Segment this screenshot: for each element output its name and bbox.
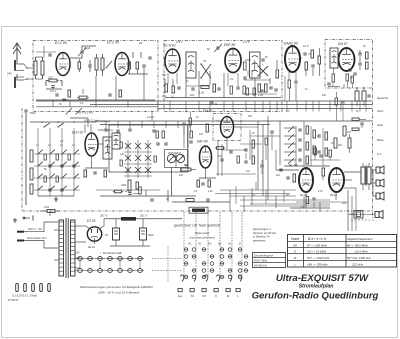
- svg-text:gezeichnet: UK-Taste gedrückt: gezeichnet: UK-Taste gedrückt: [174, 224, 221, 228]
- table column lines: [304, 235, 347, 268]
- gang drop wire: [172, 168, 181, 197]
- mid box A parts cluster: [128, 52, 152, 74]
- note Gleichspannungen 1: [80, 285, 154, 289]
- label gezeichnet UK-Taste gedrueckt: [174, 224, 221, 228]
- box A bottom link: [46, 88, 62, 89]
- IF transformer can Fi1: [186, 52, 196, 78]
- resistor chain center: [246, 140, 255, 173]
- label EM 87: [338, 42, 348, 46]
- AM band switch row 1: [34, 150, 80, 155]
- svg-text:EBF 89: EBF 89: [197, 140, 208, 144]
- note Spannungen: [253, 227, 276, 242]
- Tastensatz left feed dashes: [152, 246, 182, 282]
- svg-text:AM 460 kHz: AM 460 kHz: [253, 265, 268, 268]
- resistors under V2: [162, 84, 181, 99]
- coupling parts to EABC80: [300, 50, 315, 76]
- screen resistor: [322, 168, 325, 176]
- IF decoupling cluster: [243, 59, 277, 95]
- parts under V3 tube: [230, 86, 246, 94]
- AM section bottom bus: [38, 195, 74, 197]
- table header Taste: [291, 237, 300, 241]
- folded dipole bars: [15, 60, 24, 88]
- svg-text:(von oben gesehen): (von oben gesehen): [190, 236, 215, 240]
- mains plug pin 1: [17, 231, 28, 233]
- svg-text:Bass: Bass: [377, 138, 384, 142]
- svg-text:Ultra-EXQUISIT 57W: Ultra-EXQUISIT 57W: [276, 273, 369, 284]
- parts below detector box: [335, 92, 345, 121]
- tone parts column 2: [313, 130, 328, 156]
- label HL: [377, 152, 382, 156]
- parts above V3: [207, 44, 222, 52]
- loudspeaker LS1: [376, 166, 384, 174]
- antenna input wires top: [36, 46, 56, 58]
- svg-text:1,5k: 1,5k: [199, 91, 205, 95]
- capacitor 0,5n: [46, 81, 62, 94]
- Zwischenfrequenz box: [253, 253, 286, 268]
- interstage parts right mid: [310, 134, 351, 160]
- tube V6 ECH81 AM: [85, 133, 98, 156]
- label Solo: [377, 123, 383, 127]
- svg-text:281 V: 281 V: [99, 214, 108, 218]
- table row UK: [293, 243, 368, 247]
- svg-text:Spannungen u.: Spannungen u.: [253, 227, 271, 231]
- label ECH 81 AM: [72, 131, 83, 135]
- tube V2 ECH81: [165, 49, 180, 73]
- label 220V 50: [27, 227, 42, 231]
- svg-text:222: 222: [341, 202, 347, 205]
- X switch right of V3: [257, 65, 268, 76]
- EM80 feed parts: [182, 112, 191, 134]
- oscillator coil can: [103, 137, 112, 159]
- mains wires: [28, 211, 58, 248]
- chassis boundary left dash-dot: [21, 108, 23, 211]
- B+ trunk mid y124.5: [100, 124, 270, 126]
- Tastensatz column labels E1: [188, 242, 241, 246]
- tuning gang section 2: [176, 154, 184, 162]
- stubs under top tubes: [168, 72, 296, 86]
- svg-text:48 V 4,4 mA: 48 V 4,4 mA: [95, 120, 110, 124]
- tone switch stack: [284, 126, 296, 164]
- svg-text:E1: E1: [188, 242, 192, 246]
- svg-text:Aus: Aus: [177, 294, 183, 298]
- svg-text:Solo: Solo: [377, 123, 383, 127]
- label 150V: [84, 119, 99, 123]
- power transformer primary: [59, 220, 64, 276]
- svg-text:ECC 85: ECC 85: [55, 41, 67, 45]
- label EL 84: [289, 164, 298, 168]
- label Tanz: [377, 109, 384, 113]
- table row L: [294, 262, 363, 266]
- trimmer capacitor 30pF: [78, 46, 91, 56]
- label 67 026 05: [8, 300, 19, 302]
- trunk line y97.5: [165, 97, 281, 99]
- dipole terminals: [24, 64, 33, 80]
- tube V4 EABC80: [285, 46, 300, 72]
- tube V5 EAA91 in detector box: [339, 48, 355, 71]
- box A lower wires: [36, 68, 155, 100]
- svg-text:Netzschalter 25,4: Netzschalter 25,4: [27, 237, 47, 240]
- svg-text:E1: E1: [228, 242, 232, 246]
- dipole matching coils: [34, 57, 44, 79]
- detector coil can: [330, 48, 338, 68]
- tube V1b ECC85: [115, 53, 129, 76]
- table row lines: [288, 242, 397, 261]
- tuned line circuit: [95, 54, 104, 76]
- label ECC 85 right half: [107, 41, 144, 46]
- subtitle Stromlaufplan: [299, 284, 334, 290]
- svg-text:Sprache: Sprache: [377, 96, 389, 100]
- loudspeaker LS3: [376, 192, 384, 200]
- svg-text:200V· 10-V- und 15-V-Bereich: 200V· 10-V- und 15-V-Bereich: [97, 290, 140, 294]
- wires around V8: [168, 153, 216, 178]
- AM band switch row 2: [34, 162, 80, 167]
- svg-text:B e r e i c h: B e r e i c h: [308, 237, 326, 241]
- tube V1a ECC85: [56, 53, 70, 76]
- title Gerufon-Radio Quedlinburg: [252, 291, 379, 302]
- svg-text:Tastensatz: Tastensatz: [195, 231, 210, 235]
- table header Bereich: [308, 237, 326, 241]
- label 251 V: [139, 214, 148, 218]
- parts under EABC80: [285, 76, 298, 101]
- svg-text:87 — 100 MHz: 87 — 100 MHz: [307, 243, 328, 247]
- heater labels: [75, 253, 122, 255]
- svg-text:UK: UK: [202, 294, 206, 298]
- electrolytic 50uF 2: [140, 219, 155, 246]
- ratio detector capacitors: [358, 45, 366, 70]
- NF coupling parts left mid: [113, 187, 142, 194]
- label Netzschalter: [27, 237, 47, 240]
- wire antenna down: [17, 58, 24, 80]
- coupling cap EL84: [276, 169, 283, 177]
- wattage legend symbols: [16, 284, 51, 292]
- svg-text:4,4mA: 4,4mA: [147, 116, 154, 119]
- label 240: [6, 72, 12, 76]
- svg-text:Drucktasten-Satz: Drucktasten-Satz: [103, 252, 122, 255]
- resistor 220: [47, 76, 59, 82]
- svg-text:Tanz: Tanz: [377, 109, 384, 113]
- AM input coils: [30, 150, 33, 194]
- svg-text:52n: 52n: [190, 93, 195, 97]
- caps lower mid: [150, 199, 209, 202]
- AM matrix resistors: [44, 154, 70, 182]
- svg-text:148 — 350 kHz: 148 — 350 kHz: [307, 262, 328, 266]
- oscillator shield box solid: [109, 125, 188, 172]
- heater risers: [80, 260, 140, 268]
- coil 220k parts: [120, 180, 139, 191]
- svg-text:Taste: Taste: [291, 237, 300, 241]
- coupling parts center mid: [215, 131, 274, 176]
- svg-text:Stromlaufplan: Stromlaufplan: [299, 284, 334, 290]
- parts under V6: [84, 170, 107, 177]
- IF amplifier shield box dash-dot: [164, 41, 282, 112]
- svg-text:EABC 80: EABC 80: [284, 42, 298, 46]
- table row K: [294, 249, 368, 253]
- mains fuse: [40, 206, 60, 213]
- loudspeaker LS4: [375, 211, 383, 219]
- label 150V 5,2mA inside box: [98, 128, 113, 132]
- resistor grid box A: [78, 59, 81, 72]
- output transformer: [361, 163, 371, 190]
- label Drucktasten-Satz: [103, 252, 122, 255]
- svg-text:E1: E1: [208, 242, 212, 246]
- tube V9 EL84 output: [299, 168, 313, 192]
- label EM 80: [203, 109, 212, 113]
- trunk line y108 lower: [158, 108, 372, 110]
- output stage wires: [276, 150, 352, 208]
- AM matrix capacitors: [48, 165, 75, 191]
- tube V10 EM80 bold: [329, 168, 344, 192]
- svg-text:Strömen an NF-bei: Strömen an NF-bei: [253, 231, 276, 235]
- svg-text:2,2k: 2,2k: [207, 190, 213, 193]
- svg-text:in Stellung TA: in Stellung TA: [253, 235, 270, 239]
- switch contact g2: [57, 123, 63, 128]
- wattage legend text: [12, 294, 37, 298]
- heater chain row 1: [74, 257, 144, 261]
- svg-text:220: 220: [47, 76, 53, 80]
- coupling capacitor box A: [88, 60, 91, 72]
- cap 6n near EM80: [210, 102, 218, 106]
- long wires lower mid: [96, 190, 330, 206]
- trunk line y104.5: [90, 104, 372, 106]
- svg-text:EBF 89: EBF 89: [224, 43, 235, 47]
- tone network wires: [280, 121, 330, 166]
- svg-text:98 V 8,2 mA: 98 V 8,2 mA: [78, 111, 93, 115]
- svg-text:Abgleichfrequenzen: Abgleichfrequenzen: [346, 237, 373, 241]
- wires box B: [165, 60, 277, 98]
- svg-text:Ra 10: Ra 10: [88, 245, 95, 249]
- svg-text:517 — 1620 kHz: 517 — 1620 kHz: [307, 256, 330, 260]
- band switch row top: [30, 121, 96, 123]
- svg-text:2 k: 2 k: [79, 101, 84, 105]
- svg-text:220 V ~ 50: 220 V ~ 50: [27, 227, 42, 231]
- resistor 1M EM80: [199, 124, 209, 136]
- svg-text:E: E: [239, 242, 241, 246]
- label von oben gesehen: [190, 236, 215, 240]
- loudspeaker LS2: [376, 179, 384, 187]
- capacitor 5n: [59, 99, 66, 106]
- chassis boundary bottom dash-dot: [22, 210, 373, 212]
- svg-text:4,9 V: 4,9 V: [176, 40, 184, 44]
- mains plug pin 2: [17, 240, 44, 242]
- ground mains: [13, 218, 17, 222]
- AM coil labels: [36, 144, 75, 147]
- svg-text:ECH 81: ECH 81: [164, 44, 176, 48]
- switch wires top row: [70, 118, 88, 127]
- IF transformer can Fi2: [250, 52, 261, 78]
- svg-text:ECC 85: ECC 85: [107, 41, 119, 45]
- svg-text:0,1 0,25 0,5 1 2 Watt: 0,1 0,25 0,5 1 2 Watt: [12, 294, 37, 298]
- label EBF 89 NF: [197, 140, 208, 144]
- svg-text:E1: E1: [198, 242, 202, 246]
- trunk y106.8 box A: [36, 106, 158, 108]
- bass potentiometer: [331, 138, 342, 148]
- svg-text:Zwischenfrequenz: Zwischenfrequenz: [253, 256, 274, 258]
- label Ra 10 EZ80: [88, 245, 95, 249]
- detector load resistor: [327, 68, 340, 87]
- svg-text:4,7k: 4,7k: [318, 190, 323, 193]
- svg-text:5,0 — 19 MHz: 5,0 — 19 MHz: [307, 249, 327, 253]
- svg-text:25k: 25k: [247, 115, 253, 118]
- alignment table frame: [288, 235, 397, 268]
- parts right of oscillator box: [156, 126, 193, 148]
- extra speaker coupling box: [350, 211, 363, 219]
- svg-text:86 — 96,5 MHz: 86 — 96,5 MHz: [347, 243, 368, 247]
- svg-text:0,8A: 0,8A: [44, 206, 49, 209]
- svg-text:0,5 n: 0,5 n: [50, 89, 56, 93]
- table row M: [294, 256, 371, 260]
- transformer taps: [54, 226, 86, 268]
- label ECC 85: [55, 41, 67, 45]
- tuning gang section 1: [167, 154, 175, 162]
- trunk line y101: [36, 100, 372, 102]
- AGC capacitors: [274, 70, 278, 91]
- switch contact g1: [43, 123, 49, 128]
- resistors under V3: [257, 84, 273, 97]
- switch arrows under 98V label: [66, 108, 83, 115]
- vertical supply lines center: [258, 116, 268, 200]
- EM80 connections: [216, 121, 241, 144]
- cathode RC EL84: [300, 197, 316, 210]
- switch contact box A: [105, 61, 112, 69]
- bus capacitor 1500: [24, 110, 36, 115]
- power transformer secondary: [71, 220, 76, 276]
- AM matrix verticals: [38, 128, 74, 196]
- grid resistor EL84: [286, 174, 295, 182]
- label EZ 80: [87, 219, 96, 223]
- svg-text:150V 5,2mA: 150V 5,2mA: [98, 128, 113, 132]
- svg-text:2,5 V: 2,5 V: [242, 40, 251, 44]
- svg-text:30pF: 30pF: [84, 46, 91, 50]
- power transformer core: [66, 218, 68, 278]
- filter ground bus: [110, 245, 150, 247]
- resistor 1,5k: [63, 90, 71, 102]
- tone caps column 1: [298, 126, 308, 164]
- wire anode to trimmer: [70, 46, 96, 58]
- tube V3 EBF89: [225, 49, 241, 73]
- AM band switch row 3: [34, 174, 80, 179]
- label Sprache: [377, 96, 389, 100]
- drop wires box B bottom left: [152, 101, 158, 121]
- svg-text:1500: 1500: [30, 111, 36, 115]
- svg-text:567 kHz, 1500 kHz: 567 kHz, 1500 kHz: [347, 256, 371, 260]
- svg-text:ECH 81: ECH 81: [72, 131, 83, 135]
- svg-text:EM 87: EM 87: [338, 42, 348, 46]
- svg-text:222 kHz: 222 kHz: [351, 262, 364, 266]
- resistor 2k: [77, 96, 89, 105]
- pushbutton spring contacts: [180, 275, 242, 282]
- label Bass: [377, 138, 384, 142]
- rectifier tube V11 EZ80: [87, 227, 101, 241]
- under gang wires: [124, 190, 168, 196]
- ground AM: [54, 197, 58, 201]
- label Tastensatz: [195, 231, 210, 235]
- svg-text:67 026 05: 67 026 05: [8, 300, 19, 302]
- caps center column: [244, 149, 247, 163]
- filled component NF: [189, 207, 208, 213]
- dashed link to speaker 4: [351, 219, 374, 221]
- wires around V6: [85, 124, 108, 168]
- svg-text:50μF: 50μF: [148, 234, 154, 237]
- mixer switch cross: [200, 59, 211, 79]
- label 98V: [78, 111, 93, 115]
- trunk verticals below boxes: [53, 100, 128, 107]
- center mid extra wires: [240, 130, 280, 174]
- oscillator switch cluster: [124, 140, 152, 178]
- volume potentiometer 1M: [179, 164, 191, 177]
- svg-text:FM 6,7 MHz: FM 6,7 MHz: [254, 260, 268, 263]
- wires center mid: [222, 127, 258, 159]
- svg-text:220k: 220k: [120, 184, 127, 187]
- box A caps under tubes: [55, 90, 121, 97]
- svg-text:Gleichspannungen gemessen mit: Gleichspannungen gemessen mit Meßgerät 1…: [80, 285, 154, 289]
- extra lower mid wires: [215, 182, 330, 208]
- output transformer primary wires: [344, 172, 361, 200]
- svg-text:gemessen: gemessen: [253, 239, 266, 242]
- row under mixer: [190, 84, 221, 97]
- table header Abgleichfrequenzen: [346, 237, 373, 241]
- svg-text:0,1: 0,1: [171, 95, 175, 99]
- svg-text:K: K: [215, 294, 217, 298]
- svg-text:6,3V: 6,3V: [75, 253, 80, 255]
- label 48V 4,4mA: [95, 120, 110, 124]
- parts under V8: [194, 180, 213, 193]
- pushbutton labels: [177, 294, 240, 298]
- sprinkled value labels: [44, 56, 359, 205]
- feedback parts right: [352, 118, 366, 131]
- labels Ra 10 under output tubes: [300, 193, 337, 197]
- B+ rail: [104, 218, 121, 220]
- electrolytic 50uF 1: [105, 219, 120, 246]
- FM IF can mid: [112, 133, 120, 149]
- heater chain row 2: [74, 269, 144, 273]
- EZ80 wires: [80, 219, 104, 244]
- label ECH 81: [164, 40, 184, 48]
- speaker wires: [348, 170, 376, 215]
- B+ trunk mid y121: [96, 120, 372, 122]
- svg-text:Gerufon-Radio Quedlinburg: Gerufon-Radio Quedlinburg: [252, 291, 379, 302]
- drop wires from y121: [106, 121, 190, 128]
- antenna mast: [13, 43, 21, 60]
- box C lower parts: [344, 69, 354, 88]
- resistor column x313: [318, 48, 321, 76]
- ratio detector cap 5n: [350, 73, 357, 80]
- UKW tuner shield box dash-dot: [33, 41, 158, 112]
- svg-text:H L: H L: [377, 152, 382, 156]
- AM band switch row 4: [34, 186, 80, 191]
- coupling cap 10n: [218, 155, 224, 161]
- vertical drops to trunks: [170, 101, 366, 112]
- left AM bus vertical: [25, 113, 27, 205]
- verticals above power line: [230, 188, 356, 231]
- note Gleichspannungen 2: [97, 290, 140, 294]
- svg-text:Ra 10: Ra 10: [330, 193, 337, 197]
- svg-text:240: 240: [6, 72, 12, 76]
- svg-text:251 V: 251 V: [139, 214, 148, 218]
- Tastensatz dashed columns: [184, 212, 242, 277]
- tube V7 EM80 indicator: [221, 117, 234, 138]
- EM80 shield box dash-dot: [213, 114, 241, 141]
- Tastensatz contact circle grid: [184, 248, 248, 279]
- small caps under trunk: [104, 129, 155, 132]
- svg-text:2,2k: 2,2k: [257, 93, 264, 97]
- svg-text:TA: TA: [190, 294, 194, 298]
- chassis boundary right dash-dot: [372, 88, 374, 218]
- svg-text:EL 84: EL 84: [289, 164, 298, 168]
- filter resistor filled: [121, 217, 182, 221]
- treble potentiometer: [343, 126, 351, 136]
- svg-text:EM 80: EM 80: [203, 109, 212, 113]
- ratio detector resistors: [366, 52, 369, 69]
